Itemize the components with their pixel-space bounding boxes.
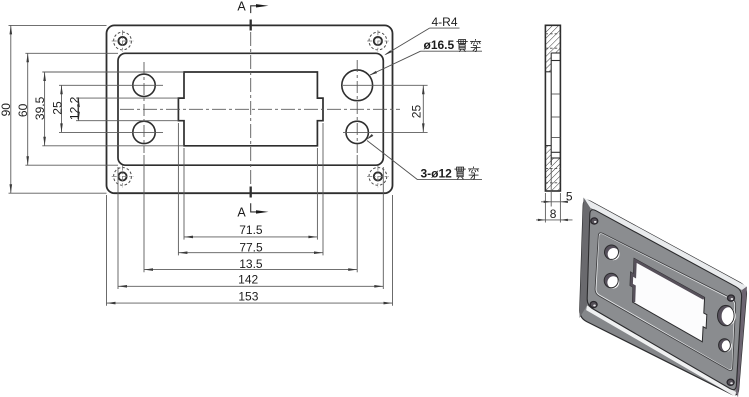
svg-text:25: 25 bbox=[50, 101, 64, 115]
3d right side face bbox=[736, 287, 747, 397]
svg-text:77.5: 77.5 bbox=[239, 241, 263, 255]
hole right small phi12 bbox=[346, 121, 368, 143]
hole right big phi16.5 bbox=[342, 70, 373, 101]
label guanchuan bottom bbox=[454, 167, 465, 179]
side internal lines bbox=[545, 53, 560, 165]
svg-text:13.5: 13.5 bbox=[239, 257, 263, 271]
hatch top left strip bbox=[545, 53, 551, 72]
3d plate silhouette/back bbox=[580, 200, 747, 395]
right 25 dimension bbox=[422, 85, 424, 132]
cutout with notches bbox=[178, 72, 323, 146]
leader 3-phi12 bbox=[367, 141, 482, 180]
3d left side face bbox=[580, 198, 591, 319]
corner hole 1 bbox=[112, 30, 134, 52]
3d front face bbox=[587, 210, 741, 390]
svg-text:5: 5 bbox=[566, 189, 573, 203]
hatch bottom full bbox=[545, 158, 560, 191]
3d hole right big bbox=[718, 305, 736, 325]
svg-text:39.5: 39.5 bbox=[33, 96, 47, 120]
3d corner hole 3 bbox=[590, 302, 597, 308]
svg-text:71.5: 71.5 bbox=[239, 223, 263, 237]
3d recess wall bright rim bbox=[595, 233, 736, 371]
3d bottom chamfer strip bbox=[586, 306, 736, 397]
svg-text:90: 90 bbox=[0, 103, 13, 117]
svg-text:142: 142 bbox=[238, 273, 258, 287]
plate outline front view bbox=[107, 25, 393, 193]
leader phi16.5 bbox=[370, 51, 482, 75]
3d top chamfer band bbox=[584, 198, 748, 291]
corner hole 3 bbox=[112, 166, 134, 188]
3d corner hole 1 bbox=[591, 218, 598, 224]
3d hole left top bbox=[605, 245, 620, 260]
3d cutout window bbox=[630, 258, 707, 341]
svg-text:153: 153 bbox=[238, 289, 258, 303]
left vertical dimension lines bbox=[11, 25, 79, 193]
recess outline bbox=[118, 53, 383, 165]
svg-text:12.2: 12.2 bbox=[68, 96, 82, 120]
section marker A bottom bbox=[251, 187, 258, 212]
3d cutout inner walls dark bbox=[630, 258, 705, 302]
svg-text:3-ø12: 3-ø12 bbox=[421, 167, 453, 181]
3d hole left bottom bbox=[604, 273, 619, 288]
svg-text:ø16.5: ø16.5 bbox=[424, 38, 455, 52]
label guanchuan top bbox=[456, 40, 467, 52]
svg-text:A: A bbox=[237, 0, 246, 14]
left dim texts rotated bbox=[0, 96, 82, 120]
side dims bbox=[536, 168, 573, 223]
corner hole 2 bbox=[367, 30, 389, 52]
3d corner hole 2 bbox=[728, 295, 735, 301]
svg-text:25: 25 bbox=[409, 105, 423, 119]
bottom dim texts bbox=[238, 223, 263, 303]
section marker A top bbox=[251, 6, 258, 31]
side outer rect bbox=[545, 25, 560, 191]
bottom extension lines vertical bbox=[107, 123, 393, 306]
svg-text:A: A bbox=[237, 205, 246, 219]
hatch top full bbox=[545, 25, 560, 53]
extension lines horizontal left bbox=[9, 25, 428, 193]
leader 4-R4 bbox=[386, 28, 460, 54]
corner hole 4 bbox=[367, 166, 389, 188]
3d corner hole 4 bbox=[727, 379, 734, 385]
hatch bottom left strip bbox=[545, 146, 551, 158]
hole left bottom phi12 bbox=[133, 121, 155, 143]
3d recess floor bbox=[596, 234, 734, 370]
bottom dimension lines bbox=[107, 237, 393, 303]
side section view bbox=[536, 25, 573, 222]
svg-text:4-R4: 4-R4 bbox=[432, 15, 458, 29]
3d hole right small bbox=[719, 339, 732, 352]
svg-text:60: 60 bbox=[16, 103, 30, 117]
svg-text:8: 8 bbox=[550, 207, 557, 221]
centerlines bbox=[120, 32, 400, 186]
hole left top phi12 bbox=[133, 74, 155, 96]
